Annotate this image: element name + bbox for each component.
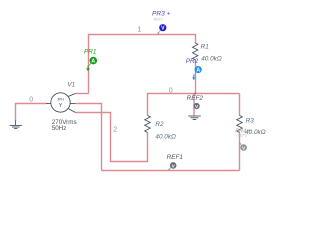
svg-text:REF1: REF1 [167,154,184,161]
svg-text:2: 2 [113,127,117,134]
svg-text:0: 0 [169,87,173,94]
svg-text:R3: R3 [246,118,255,125]
svg-text:40.0kΩ: 40.0kΩ [155,133,176,140]
svg-text:PR2: PR2 [186,58,199,65]
svg-text:40.0kΩ: 40.0kΩ [201,55,222,62]
svg-text:Y: Y [59,103,63,109]
svg-text:3PH: 3PH [57,98,64,102]
svg-text:REF2: REF2 [187,95,204,102]
svg-text:A: A [91,59,95,65]
svg-text:1: 1 [137,27,141,34]
svg-text:R1: R1 [201,44,210,51]
svg-text:A: A [196,68,200,74]
svg-text:V1: V1 [67,81,75,88]
svg-text:40.0kΩ: 40.0kΩ [245,129,266,136]
svg-text:PR1: PR1 [84,49,97,56]
svg-text:50Hz: 50Hz [52,125,67,132]
svg-text:REF1 -: REF1 - [154,17,166,21]
svg-text:0: 0 [29,96,33,103]
svg-text:V: V [161,26,165,32]
svg-text:R2: R2 [155,121,164,128]
